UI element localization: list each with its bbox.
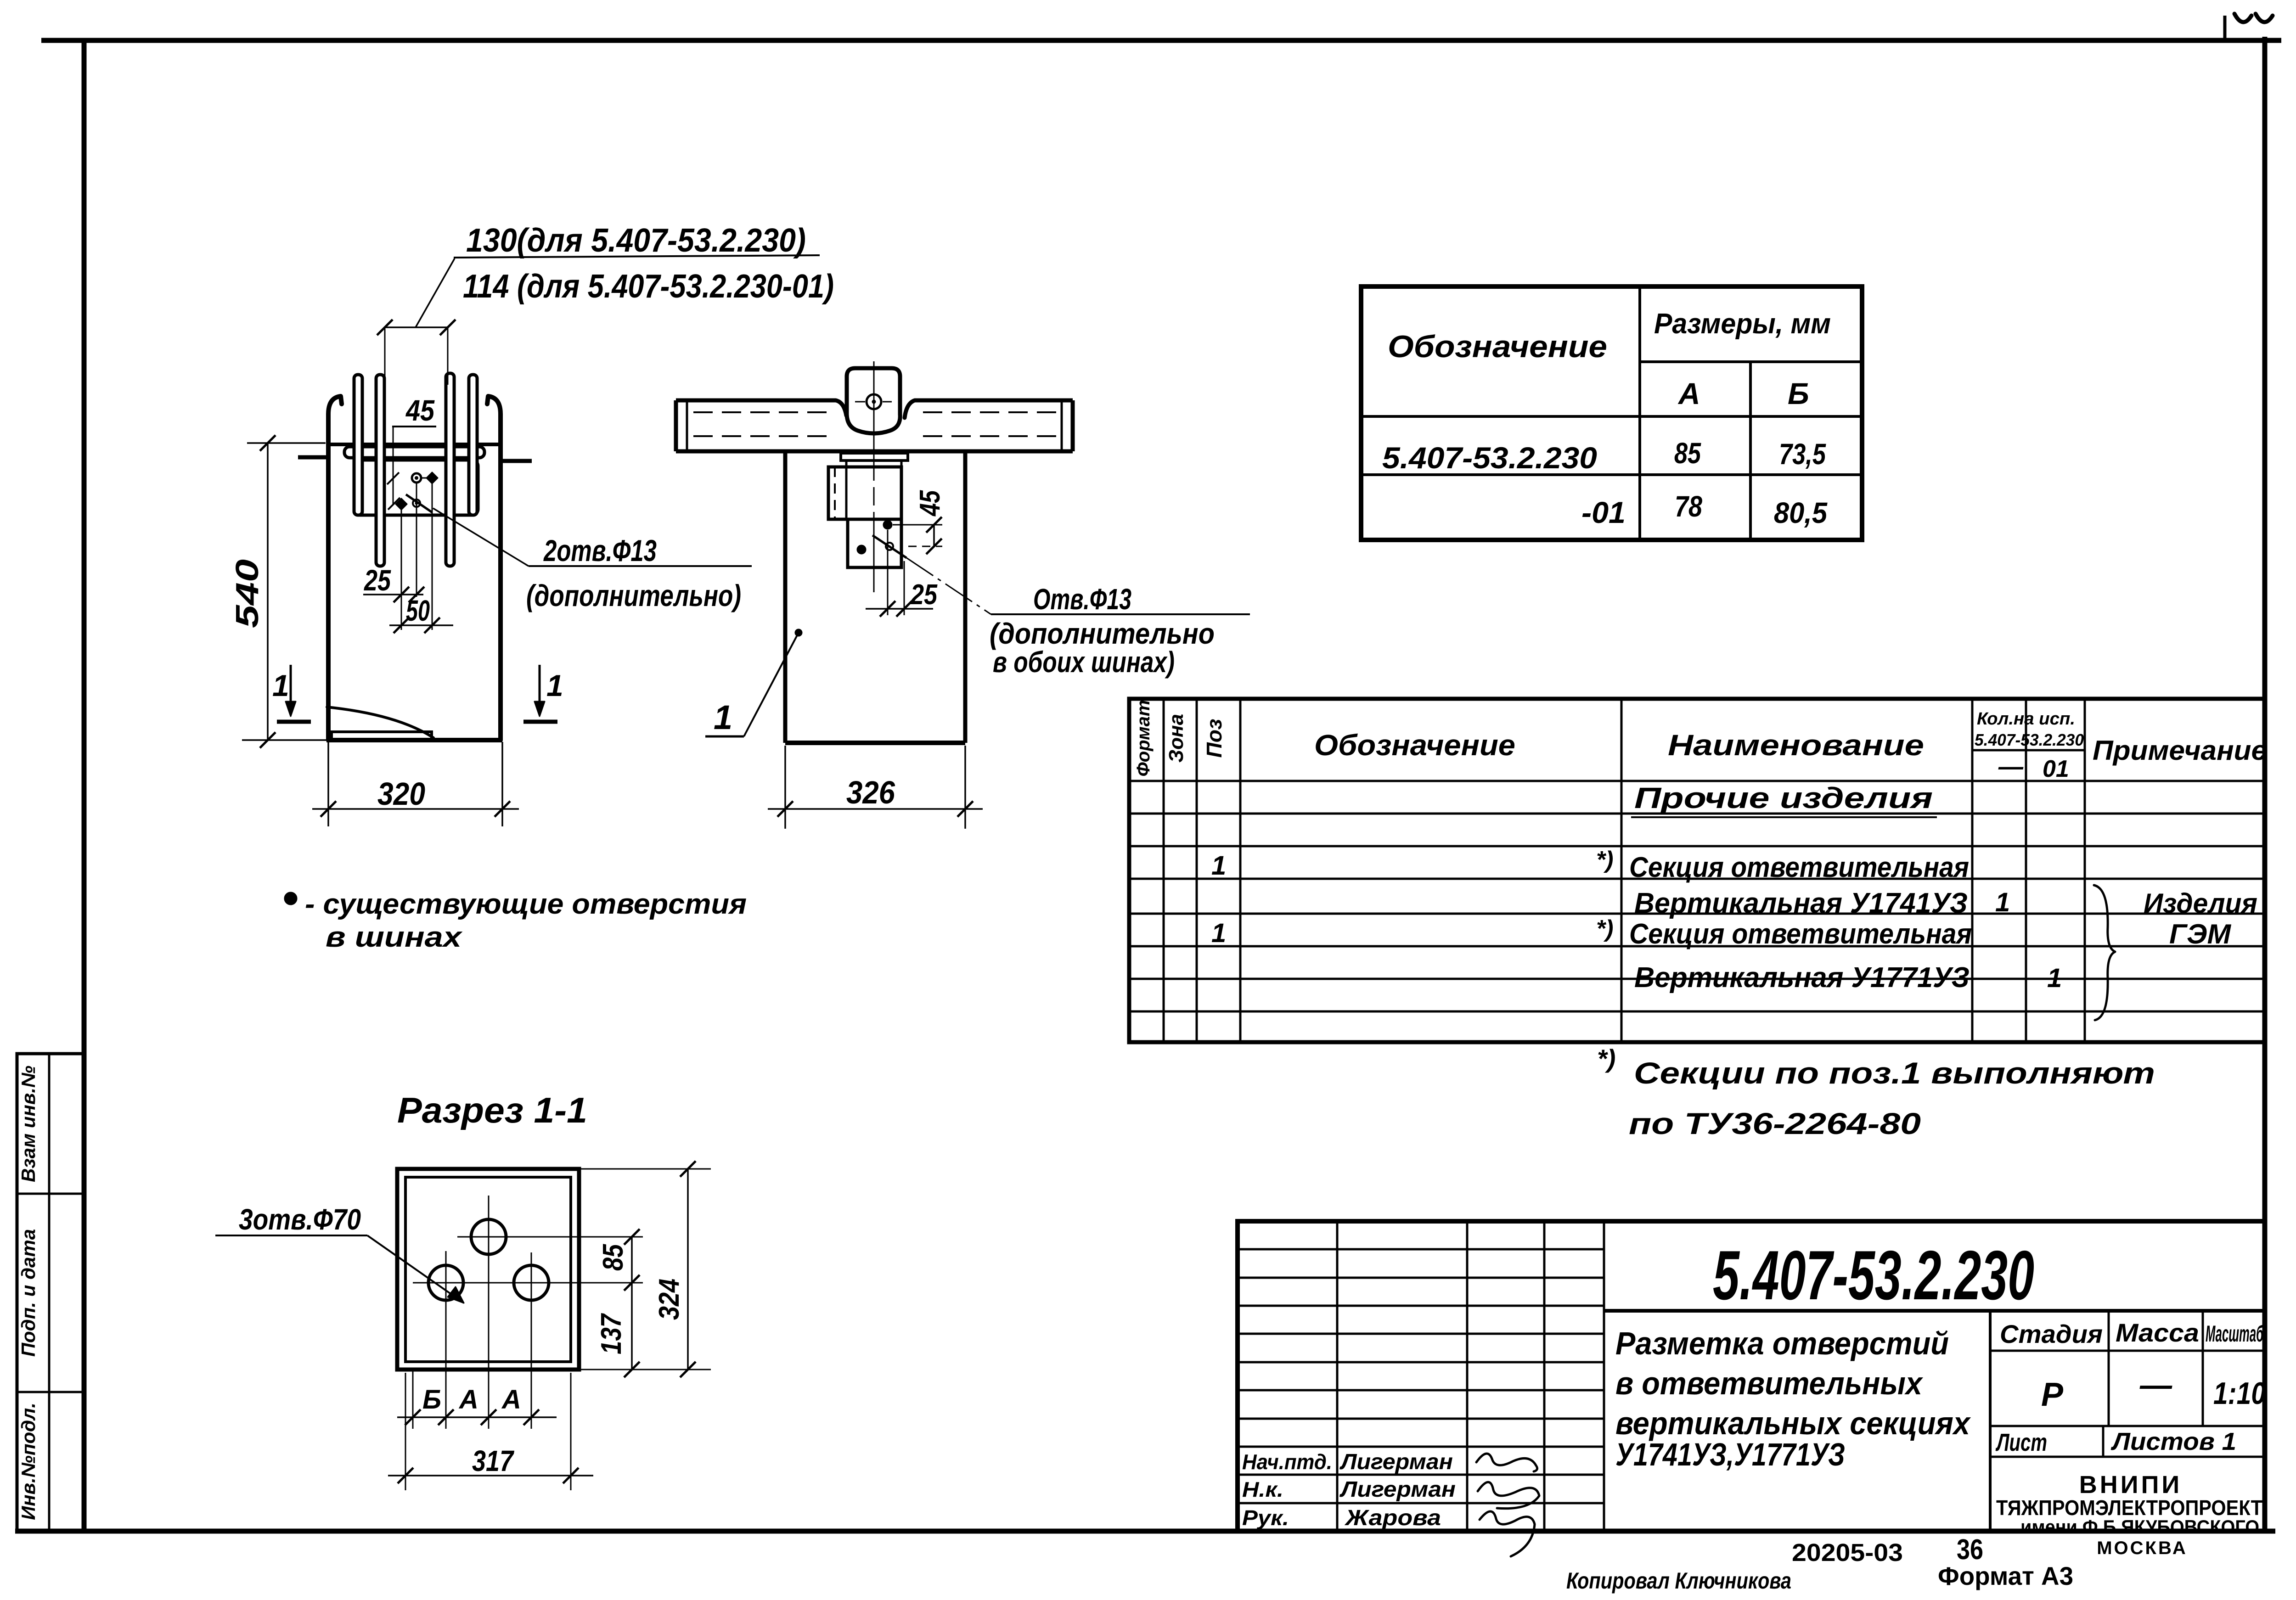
left view: section body right wall with curled lip <box>487 396 501 740</box>
svg-text:Р: Р <box>2041 1376 2064 1413</box>
title block: outer border <box>1238 1221 2265 1531</box>
svg-text:Секция ответвительная: Секция ответвительная <box>1629 918 1972 950</box>
svg-text:324: 324 <box>653 1279 685 1320</box>
title block: left grid horizontal lines <box>1238 1249 1604 1503</box>
svg-text:5.407-53.2.230: 5.407-53.2.230 <box>1713 1236 2034 1314</box>
middle view: hole small circle <box>886 543 893 550</box>
svg-text:Вертикальная У1771УЗ: Вертикальная У1771УЗ <box>1634 962 1970 994</box>
svg-text:Поз: Поз <box>1202 719 1226 758</box>
middle view: hole dot lower left <box>857 545 866 554</box>
svg-text:Обозначение: Обозначение <box>1388 329 1607 364</box>
title block: VNIPI organisation stamp <box>1996 1471 2262 1558</box>
svg-text:имени Ф.Б.ЯКУБОВСКОГО: имени Ф.Б.ЯКУБОВСКОГО <box>2020 1516 2259 1538</box>
svg-text:*): *) <box>1596 915 1614 942</box>
svg-text:45: 45 <box>405 394 435 427</box>
svg-text:25: 25 <box>364 564 391 597</box>
left view: new hole diamond top right <box>427 472 438 483</box>
middle view: clamp bolt hole circle <box>867 394 881 409</box>
svg-text:У1741УЗ,У1771УЗ: У1741УЗ,У1771УЗ <box>1615 1437 1845 1472</box>
svg-text:Подп. и дата: Подп. и дата <box>17 1229 39 1357</box>
svg-text:в обоих шинах): в обоих шинах) <box>993 646 1175 679</box>
middle view: clamp tab with jaws <box>836 400 846 415</box>
svg-text:Секции по поз.1 выполняют: Секции по поз.1 выполняют <box>1634 1056 2155 1090</box>
svg-text:326: 326 <box>846 775 895 810</box>
svg-text:*): *) <box>1596 847 1614 873</box>
svg-text:в шинах: в шинах <box>326 921 463 953</box>
BOM note brace <box>2094 885 2115 1020</box>
svg-text:Лигерман: Лигерман <box>1339 1450 1453 1474</box>
dimension 317 section <box>405 1373 406 1490</box>
label Otv F13 with shelf <box>991 613 1250 615</box>
svg-text:1: 1 <box>714 698 732 736</box>
BOM table: outline <box>1129 699 2265 1042</box>
section 1-1: inner plate square <box>405 1177 571 1362</box>
section 1-1: hole circle right <box>514 1265 549 1300</box>
dimension 50 left view <box>389 624 453 626</box>
left view: section body left wall with curled lip <box>328 396 342 740</box>
svg-text:5.407-53.2.230: 5.407-53.2.230 <box>1382 441 1597 475</box>
middle view: collar flange below trunk <box>841 453 908 460</box>
dimension 540 left view <box>247 442 326 444</box>
svg-text:МОСКВА: МОСКВА <box>2097 1538 2188 1558</box>
dimension 45 middle view <box>893 524 942 526</box>
svg-text:1: 1 <box>272 668 289 702</box>
section cut mark 1 left <box>290 665 292 711</box>
left view: right side wing flange <box>501 459 532 463</box>
title block: big document number cell <box>1604 1309 2265 1313</box>
dimension 45 left view: shelf and drop line <box>392 426 436 427</box>
svg-text:в ответвительных: в ответвительных <box>1615 1365 1924 1401</box>
svg-text:Наименование: Наименование <box>1668 729 1924 762</box>
svg-text:Масса: Масса <box>2116 1318 2199 1347</box>
svg-text:130(для 5.407-53.2.230): 130(для 5.407-53.2.230) <box>466 222 806 259</box>
svg-text:А: А <box>1677 376 1700 410</box>
title block: title text cell <box>1615 1325 1971 1472</box>
svg-text:А: А <box>501 1385 521 1415</box>
svg-text:вертикальных секциях: вертикальных секциях <box>1615 1405 1971 1441</box>
svg-text:Отв.Ф13: Отв.Ф13 <box>1033 583 1131 616</box>
svg-text:Инв.№подл.: Инв.№подл. <box>17 1403 39 1520</box>
svg-text:Разрез 1-1: Разрез 1-1 <box>397 1090 587 1130</box>
middle view: lower hole box <box>848 519 901 567</box>
left view: bottom break arc <box>327 707 433 738</box>
svg-text:—: — <box>2139 1367 2172 1403</box>
left margin column: Vzam inv No / Podp i data / Inv No podl <box>17 1054 84 1531</box>
svg-text:1:10: 1:10 <box>2213 1376 2266 1411</box>
left view hole witness column lines <box>401 508 402 630</box>
svg-text:ГЭМ: ГЭМ <box>2169 919 2232 949</box>
title block: left grid vertical lines <box>1337 1221 1604 1531</box>
svg-text:Лигерман: Лигерман <box>1339 1477 1456 1502</box>
left view: busbar 1 <box>354 375 362 515</box>
middle view: section body walls <box>783 451 788 743</box>
svg-text:Н.к.: Н.к. <box>1242 1477 1283 1501</box>
svg-text:Секция ответвительная: Секция ответвительная <box>1629 852 1969 883</box>
svg-text:-01: -01 <box>1581 495 1626 529</box>
middle view: hole dot upper <box>884 521 892 529</box>
middle view: busbar trunk outline <box>676 400 1073 451</box>
svg-text:1: 1 <box>546 668 563 702</box>
svg-text:Прочие изделия: Прочие изделия <box>1634 781 1933 814</box>
dimension 85 section <box>1237 1236 1238 1237</box>
position leader 1 middle view <box>795 629 802 636</box>
svg-text:20205-03: 20205-03 <box>1792 1539 1903 1566</box>
svg-text:*): *) <box>1597 1044 1615 1073</box>
sizes table: inner lines <box>1361 286 1862 540</box>
svg-text:А: А <box>458 1385 478 1415</box>
left view: bus window opening <box>354 460 478 515</box>
svg-text:78: 78 <box>1675 490 1702 523</box>
dimension 324 section <box>579 1168 711 1170</box>
svg-text:Взам инв.№: Взам инв.№ <box>17 1066 39 1182</box>
section 1-1: centerlines <box>413 1196 643 1429</box>
svg-text:45: 45 <box>914 490 946 517</box>
title block: signature rows <box>1242 1450 1456 1530</box>
left view: left side wing flange <box>298 455 327 460</box>
left view: existing hole small circle lower <box>413 500 420 507</box>
dimension 25 left view <box>363 594 423 595</box>
svg-text:—: — <box>1998 753 2024 780</box>
middle view: diagonal mark through holes <box>872 535 906 558</box>
middle view: wide plate with hidden edge <box>828 467 901 519</box>
svg-text:(дополнительно): (дополнительно) <box>526 578 741 612</box>
svg-text:85: 85 <box>1674 437 1701 470</box>
section 1-1: outer plate square <box>397 1169 579 1370</box>
dimension B A A section <box>397 1416 557 1418</box>
svg-text:Формат А3: Формат А3 <box>1938 1561 2073 1590</box>
svg-text:25: 25 <box>910 579 938 611</box>
svg-text:Листов 1: Листов 1 <box>2110 1428 2236 1455</box>
left view: witness tick marks <box>387 472 399 484</box>
dimension 25 middle view <box>887 530 889 615</box>
svg-text:5.407-53.2.230: 5.407-53.2.230 <box>1975 730 2084 749</box>
left view: hat inner horizontal line <box>330 443 499 446</box>
svg-text:- существующие отверстия: - существующие отверстия <box>305 888 747 920</box>
svg-text:01: 01 <box>2043 756 2069 782</box>
svg-text:Формат: Формат <box>1133 700 1154 777</box>
svg-text:320: 320 <box>377 776 425 812</box>
svg-text:Примечание: Примечание <box>2093 735 2267 766</box>
svg-text:137: 137 <box>596 1313 627 1354</box>
svg-text:540: 540 <box>229 559 265 628</box>
BOM table: vertical lines <box>1164 699 2085 1042</box>
dimension 320 left view <box>327 742 329 826</box>
svg-text:1: 1 <box>1211 918 1226 948</box>
middle view: vertical centerline <box>873 361 875 592</box>
svg-text:Изделия: Изделия <box>2144 888 2257 919</box>
title block: stadiya massa masshtab cells <box>1990 1311 2265 1531</box>
section 1-1: hole circle top <box>471 1219 506 1254</box>
svg-text:Масштаб: Масштаб <box>2206 1321 2264 1347</box>
svg-text:Кол.на исп.: Кол.на исп. <box>1977 709 2075 729</box>
left view: new hole diamond lower left <box>396 499 407 510</box>
label 2 otv F13 with leader <box>433 508 529 566</box>
svg-text:по ТУ36-2264-80: по ТУ36-2264-80 <box>1629 1106 1921 1140</box>
svg-text:Зона: Зона <box>1165 714 1187 763</box>
middle view: leader dash-dot to Otv F13 <box>906 558 991 614</box>
left view: busbar 4 <box>469 375 477 515</box>
left view: hat bottom flange bar <box>344 447 484 458</box>
svg-text:80,5: 80,5 <box>1774 496 1828 529</box>
svg-text:1: 1 <box>2047 963 2062 993</box>
svg-text:Лист: Лист <box>1995 1429 2047 1456</box>
left view: bottom flat bar <box>332 732 432 740</box>
svg-text:114 (для 5.407-53.2.230-01): 114 (для 5.407-53.2.230-01) <box>463 268 834 305</box>
svg-text:2отв.Ф13: 2отв.Ф13 <box>543 533 657 567</box>
svg-text:3отв.Ф70: 3отв.Ф70 <box>239 1203 361 1236</box>
svg-text:Б: Б <box>422 1385 441 1415</box>
svg-text:Рук.: Рук. <box>1242 1506 1289 1530</box>
dimension 137 section <box>631 1283 633 1370</box>
svg-text:Б: Б <box>1788 376 1809 410</box>
cut page number at top right corner <box>2225 14 2273 39</box>
section cut mark 1 right <box>539 665 541 711</box>
svg-text:ВНИПИ: ВНИПИ <box>2079 1471 2182 1499</box>
svg-text:Разметка отверстий: Разметка отверстий <box>1615 1325 1949 1361</box>
sizes table: outline <box>1361 286 1862 540</box>
svg-text:50: 50 <box>406 594 430 627</box>
svg-text:Обозначение: Обозначение <box>1314 729 1515 762</box>
svg-text:Вертикальная У1741УЗ: Вертикальная У1741УЗ <box>1634 887 1968 919</box>
svg-text:73,5: 73,5 <box>1779 438 1826 471</box>
left view: busbar 2 <box>376 375 384 566</box>
BOM table: horizontal lines <box>1129 750 2265 1011</box>
svg-text:Нач.птд.: Нач.птд. <box>1242 1450 1332 1474</box>
svg-text:Размеры, мм: Размеры, мм <box>1654 308 1831 340</box>
middle view: busbar dashed centerlines <box>693 412 1056 436</box>
section 1-1: hole circle left <box>428 1265 463 1300</box>
svg-text:1: 1 <box>1995 887 2010 917</box>
legend: existing holes bullet note <box>285 893 297 904</box>
svg-text:Копировал Ключникова: Копировал Ключникова <box>1566 1568 1791 1594</box>
left view: body bottom edge <box>326 738 502 742</box>
middle view: stub plate sides <box>845 460 848 519</box>
left view: busbar 3 <box>446 373 454 566</box>
svg-text:1: 1 <box>1211 851 1226 881</box>
svg-text:Жарова: Жарова <box>1344 1506 1441 1530</box>
left view: existing hole open circle top <box>412 473 421 483</box>
left view: diagonal mark through lower holes <box>406 494 432 512</box>
svg-text:Стадия: Стадия <box>2000 1319 2103 1348</box>
svg-text:36: 36 <box>1957 1534 1983 1566</box>
svg-text:317: 317 <box>472 1444 515 1477</box>
svg-text:85: 85 <box>597 1244 629 1271</box>
title block: signature squiggles <box>1476 1454 1539 1556</box>
dimension 130/114 top leader <box>385 326 448 328</box>
dimension 326 middle view <box>784 746 786 829</box>
